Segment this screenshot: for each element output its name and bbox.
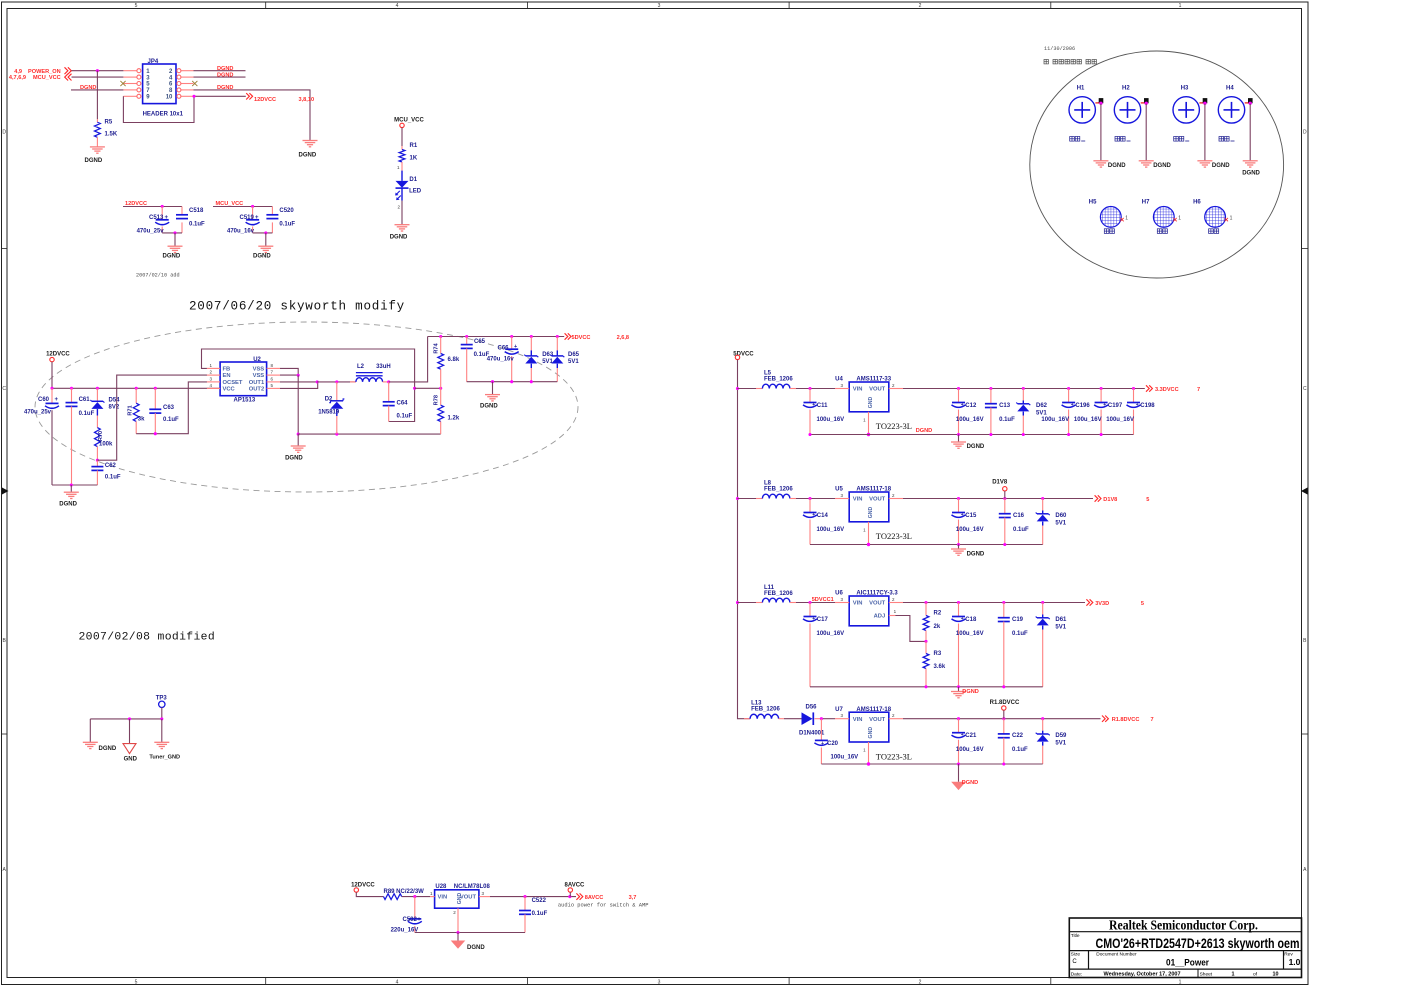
junction (413, 895, 416, 898)
svg-text:C520: C520 (279, 208, 294, 214)
svg-text:DGND: DGND (253, 254, 271, 260)
capacitor C60 (24, 388, 59, 485)
junction (957, 433, 960, 436)
junction (957, 717, 960, 720)
svg-text:JP4: JP4 (148, 59, 159, 65)
svg-text:H5: H5 (1089, 200, 1097, 206)
power port 8AVCC (565, 883, 586, 897)
svg-text:+: + (255, 215, 259, 221)
svg-text:3V3D: 3V3D (1095, 601, 1109, 607)
svg-text:DGND: DGND (916, 428, 932, 434)
zener diode D60 (1036, 499, 1067, 545)
svg-text:100u_16V: 100u_16V (817, 631, 845, 637)
svg-text:H4: H4 (1226, 86, 1234, 92)
svg-text:Wednesday, October 17, 2007: Wednesday, October 17, 2007 (1104, 971, 1181, 977)
junction (1203, 102, 1206, 105)
capacitor C62 (91, 460, 121, 485)
junction (989, 387, 992, 390)
svg-text:DGND: DGND (1242, 171, 1260, 177)
junction (556, 335, 559, 338)
svg-text:C21: C21 (965, 733, 977, 739)
svg-text:DGND: DGND (99, 746, 117, 752)
svg-text:+: + (961, 512, 964, 518)
junction (808, 387, 811, 390)
ic U6 AIC1117CY-3.3 (835, 591, 903, 626)
svg-text:GND: GND (868, 396, 874, 408)
svg-text:0.1uF: 0.1uF (1012, 747, 1028, 753)
svg-text:C66: C66 (498, 346, 510, 352)
junction (70, 483, 73, 486)
svg-text:+: + (812, 616, 815, 622)
svg-text:R3: R3 (934, 651, 942, 657)
svg-text:4: 4 (396, 3, 399, 9)
power port D1V8 (992, 480, 1008, 499)
resistor R3 (923, 641, 946, 686)
junction (924, 685, 927, 688)
svg-text:D2: D2 (325, 396, 333, 402)
wire cap bottoms (253, 232, 273, 234)
svg-text:R71: R71 (128, 405, 134, 415)
capacitor C198 (1106, 389, 1155, 435)
svg-text:H3: H3 (1181, 86, 1189, 92)
svg-text:C197: C197 (1108, 403, 1123, 409)
svg-text:H2: H2 (1122, 86, 1130, 92)
svg-text:100u_16V: 100u_16V (1041, 417, 1069, 423)
capacitor C20 (814, 719, 858, 764)
wire ground rail (298, 433, 441, 435)
ground DGND (951, 549, 985, 557)
wire output cap rail (467, 381, 558, 383)
svg-text:DGND: DGND (480, 404, 498, 410)
wire VOUT (903, 388, 1145, 390)
capacitor C66 (487, 337, 519, 382)
ic U2 AP1513 (207, 357, 280, 403)
svg-text:C18: C18 (965, 617, 977, 623)
wire VOUT (903, 498, 1093, 500)
svg-text:12DVCC: 12DVCC (351, 883, 375, 889)
svg-text:VOUT: VOUT (869, 497, 886, 503)
svg-text:R1.8DVCC: R1.8DVCC (1112, 717, 1140, 723)
svg-text:1.0: 1.0 (1289, 957, 1301, 967)
capacitor C197 (1074, 389, 1123, 435)
svg-text:1: 1 (1179, 979, 1182, 985)
svg-text:C519: C519 (240, 215, 255, 221)
svg-text:FEB_1206: FEB_1206 (764, 487, 793, 493)
wire (1204, 104, 1206, 161)
svg-text:DGND: DGND (59, 502, 77, 508)
svg-text:C198: C198 (1140, 403, 1155, 409)
junction (335, 380, 338, 383)
svg-text:+: + (165, 215, 169, 221)
svg-text:D: D (2, 130, 6, 136)
junction (867, 543, 870, 546)
junction (1002, 685, 1005, 688)
svg-text:470u_25v: 470u_25v (24, 409, 52, 415)
svg-text:3,7: 3,7 (629, 895, 637, 901)
wire GND pin (868, 742, 870, 764)
capacitor C17 (803, 603, 844, 687)
svg-text:470u_16v: 470u_16v (227, 229, 255, 235)
power port 5DVCC (733, 351, 754, 359)
svg-text:100u_16V: 100u_16V (1106, 417, 1134, 423)
svg-text:DGND: DGND (390, 235, 408, 241)
ground DGND (951, 780, 978, 790)
svg-text:470u_16v: 470u_16v (487, 357, 515, 363)
svg-text:C62: C62 (105, 463, 117, 469)
svg-text:0.1uF: 0.1uF (189, 222, 205, 228)
svg-text:4,9: 4,9 (14, 69, 22, 75)
ground DGND (951, 442, 985, 450)
svg-text:+: + (812, 512, 815, 518)
capacitor C14 (803, 499, 844, 545)
junction (1249, 102, 1252, 105)
svg-text:2007/02/08 modified: 2007/02/08 modified (79, 632, 216, 644)
junction (1002, 717, 1005, 720)
junction (1041, 717, 1044, 720)
svg-text:VCC: VCC (223, 387, 236, 393)
no-connect pin6 (192, 81, 197, 86)
svg-text:R5: R5 (105, 119, 113, 125)
inductor L2 33uH (350, 364, 391, 382)
junction (1002, 601, 1005, 604)
svg-text:L11: L11 (764, 585, 775, 591)
capacitor C520 (266, 207, 295, 233)
svg-text:C11: C11 (817, 403, 828, 409)
mounting hole H5 (1089, 200, 1129, 234)
zener diode D62 (1016, 389, 1047, 435)
ground DGND (285, 446, 306, 462)
svg-text:C19: C19 (1012, 617, 1024, 623)
resistor R1 (397, 143, 418, 171)
svg-text:U7: U7 (835, 707, 843, 713)
junction (924, 601, 927, 604)
junction (297, 374, 300, 377)
test point TP3 (156, 696, 168, 708)
capacitor C502 (391, 897, 422, 934)
svg-text:EN: EN (223, 373, 231, 379)
junction (1022, 387, 1025, 390)
svg-text:470u_25v: 470u_25v (137, 229, 165, 235)
svg-text:C22: C22 (1012, 733, 1024, 739)
svg-text:3: 3 (658, 3, 661, 9)
ground DGND (83, 742, 117, 752)
svg-text:C60: C60 (38, 397, 50, 403)
capacitor C518 (176, 207, 205, 233)
wire to ground (958, 545, 960, 550)
svg-text:0.1uF: 0.1uF (1013, 527, 1029, 533)
svg-text:D59: D59 (1055, 733, 1067, 739)
ic U28 NC/LM78L08 (430, 884, 490, 933)
svg-text:DGND: DGND (217, 66, 233, 72)
svg-text:11/30/2006: 11/30/2006 (1044, 46, 1075, 52)
svg-text:2k: 2k (934, 624, 941, 630)
svg-text:DGND: DGND (1108, 163, 1126, 169)
svg-text:AIC1117CY-3.3: AIC1117CY-3.3 (856, 591, 898, 597)
LED D1 (395, 171, 422, 210)
svg-text:220u_16V: 220u_16V (391, 928, 419, 934)
wire ground rail (415, 932, 525, 934)
wire bottom rail (52, 484, 97, 486)
svg-text:CMO'26+RTD2547D+2613 skyworth: CMO'26+RTD2547D+2613 skyworth oem (1096, 935, 1300, 951)
svg-text:U28: U28 (435, 884, 447, 890)
wire VOUT (903, 602, 1085, 604)
svg-text:OUT1: OUT1 (249, 380, 265, 386)
svg-text:H1: H1 (1077, 86, 1085, 92)
svg-text:GND: GND (124, 756, 138, 762)
junction (335, 433, 338, 436)
capacitor C522 (519, 897, 548, 933)
mounting hole H1 (1069, 86, 1103, 141)
junction (1041, 497, 1044, 500)
port R1.8DVCC (1102, 716, 1154, 724)
svg-text:HEADER 10x1: HEADER 10x1 (143, 112, 184, 118)
svg-text:+: + (1071, 402, 1074, 408)
wire DGND pin2 (194, 70, 246, 72)
svg-text:DGND: DGND (217, 85, 233, 91)
svg-text:33uH: 33uH (376, 364, 391, 370)
svg-text:6.8k: 6.8k (448, 357, 460, 363)
wire (738, 602, 757, 604)
capacitor C11 (803, 389, 844, 435)
junction (50, 387, 53, 390)
wire (738, 388, 757, 390)
junction (1099, 102, 1102, 105)
mounting hole H4 (1218, 86, 1252, 141)
wire (402, 896, 430, 898)
svg-text:D1V8: D1V8 (992, 480, 1008, 486)
junction (439, 387, 442, 390)
svg-text:C: C (1072, 959, 1077, 965)
svg-text:R74: R74 (434, 342, 440, 353)
resistor R78 (434, 388, 460, 434)
zener diode D63 (524, 337, 554, 382)
title block (1069, 917, 1301, 977)
svg-text:U5: U5 (835, 487, 843, 493)
diode D56 (784, 705, 825, 737)
svg-text:D: D (1303, 130, 1307, 136)
svg-text:C17: C17 (817, 617, 829, 623)
wire 12DVCC (123, 206, 182, 208)
junction (70, 387, 73, 390)
wire OCSET (136, 382, 207, 434)
svg-text:8V2: 8V2 (109, 405, 120, 411)
wire ground rail (810, 544, 1043, 546)
svg-text:2007/06/20 skyworth modify: 2007/06/20 skyworth modify (189, 300, 405, 314)
port 3V3D (1086, 599, 1144, 607)
power port 12DVCC (351, 883, 375, 893)
junction (957, 543, 960, 546)
svg-text:1N5819: 1N5819 (318, 409, 340, 415)
capacitor C65 (461, 337, 490, 382)
svg-text:5: 5 (135, 979, 138, 985)
junction (439, 335, 442, 338)
svg-text:3,8,10: 3,8,10 (299, 97, 315, 103)
junction (957, 601, 960, 604)
svg-text:H6: H6 (1193, 200, 1201, 206)
svg-text:Tuner_GND: Tuner_GND (149, 755, 180, 761)
port MCU_VCC (9, 74, 72, 82)
svg-text:0.1uF: 0.1uF (163, 417, 179, 423)
svg-text:VOUT: VOUT (869, 601, 886, 607)
svg-text:100k: 100k (99, 442, 113, 448)
port 8AVCC (576, 893, 636, 901)
svg-text:C: C (2, 386, 6, 392)
svg-text:100u_16V: 100u_16V (817, 417, 845, 423)
svg-text:0.1uF: 0.1uF (397, 414, 413, 420)
junction (128, 717, 131, 720)
capacitor C513 (137, 207, 170, 235)
junction (251, 205, 254, 208)
wire DGND pin7 (71, 89, 123, 91)
wire to GND (129, 719, 131, 744)
svg-text:FEB_1206: FEB_1206 (764, 591, 793, 597)
svg-text:2: 2 (919, 3, 922, 9)
resistor R71 (128, 388, 146, 433)
svg-text:FEB_1206: FEB_1206 (764, 377, 793, 383)
ground DGND (951, 689, 979, 698)
capacitor C519 (227, 207, 260, 235)
junction (808, 433, 811, 436)
svg-text:GND: GND (868, 506, 874, 518)
zener diode D65 (550, 337, 579, 382)
svg-text:GND: GND (868, 727, 874, 739)
svg-text:C518: C518 (189, 208, 204, 214)
svg-text:C15: C15 (965, 513, 977, 519)
ground GND (123, 744, 138, 763)
wire to ground (958, 687, 960, 692)
svg-text:POWER_ON: POWER_ON (28, 69, 61, 75)
svg-text:VIN: VIN (853, 717, 863, 723)
svg-text:01__Power: 01__Power (1166, 957, 1209, 967)
svg-text:5V1: 5V1 (1055, 624, 1066, 630)
ground DGND (253, 246, 273, 260)
wire 5DVCC rail (428, 336, 565, 338)
wire to ground (265, 233, 267, 246)
junction (456, 931, 459, 934)
svg-text:C522: C522 (532, 898, 547, 904)
wire to ground (70, 485, 72, 492)
ground DGND (85, 147, 105, 164)
wire DGND pin4 (194, 76, 246, 78)
junction (820, 717, 823, 720)
svg-text:2,6,8: 2,6,8 (617, 335, 629, 341)
wire to ground (297, 434, 299, 446)
svg-text:R89 NC/22/3W: R89 NC/22/3W (384, 889, 425, 895)
svg-text:DGND: DGND (163, 254, 181, 260)
svg-text:C196: C196 (1075, 403, 1090, 409)
svg-text:5V1: 5V1 (542, 359, 553, 365)
svg-text:C12: C12 (965, 403, 977, 409)
svg-text:D61: D61 (1055, 617, 1067, 623)
annotation chinese note (1044, 60, 1096, 64)
resistor R2 (923, 603, 942, 642)
power port MCU_VCC (394, 117, 424, 127)
svg-text:2007/02/10 add: 2007/02/10 add (136, 273, 180, 279)
dashed region ellipse (35, 322, 578, 492)
svg-text:5: 5 (1146, 497, 1149, 503)
junction (1002, 762, 1005, 765)
svg-text:GND: GND (457, 892, 463, 904)
svg-text:100u_16V: 100u_16V (831, 755, 859, 761)
wire (821, 718, 835, 720)
wire cap bottoms (162, 232, 182, 234)
svg-text:audio power for switch & AMP: audio power for switch & AMP (558, 903, 649, 909)
wire to ground (457, 933, 459, 941)
svg-text:7: 7 (1151, 717, 1154, 723)
wire MCU_VCC (72, 76, 124, 78)
inductor L13 FEB_1206 (744, 701, 784, 719)
svg-text:D1: D1 (409, 177, 417, 183)
svg-text:Size: Size (1071, 952, 1081, 958)
junction (1132, 387, 1135, 390)
port POWER_ON (14, 67, 71, 75)
port 5DVCC (565, 333, 629, 341)
svg-text:L2: L2 (357, 364, 365, 370)
svg-text:D65: D65 (568, 352, 580, 358)
resistor R5 (95, 71, 118, 147)
wire 12DVCC pin10 (194, 95, 246, 97)
mounting hole H3 (1173, 86, 1207, 141)
capacitor C19 (998, 603, 1028, 687)
junction (1067, 433, 1070, 436)
ground DGND (390, 225, 410, 241)
wire VOUT (490, 896, 576, 898)
svg-text:ADJ: ADJ (874, 614, 886, 620)
svg-text:R78: R78 (434, 395, 440, 405)
svg-text:Title: Title (1071, 933, 1080, 939)
wire 5DVCC trunk (738, 360, 751, 719)
svg-text:Sheet: Sheet (1200, 971, 1213, 977)
svg-text:VIN: VIN (853, 601, 863, 607)
svg-text:5V1: 5V1 (1036, 410, 1047, 416)
svg-text:VIN: VIN (853, 497, 863, 503)
junction (1022, 433, 1025, 436)
mounting hole H6 (1193, 200, 1233, 234)
wire (52, 362, 221, 389)
junction (387, 380, 390, 383)
svg-text:DGND: DGND (217, 73, 233, 79)
junction (161, 205, 164, 208)
wire (356, 892, 383, 896)
ground Tuner_GND (149, 742, 180, 760)
svg-text:+: + (961, 402, 964, 408)
ground DGND (59, 492, 79, 507)
svg-text:AMS1117-18: AMS1117-18 (856, 487, 891, 493)
svg-text:Date:: Date: (1071, 971, 1082, 977)
junction (465, 335, 468, 338)
junction (1100, 433, 1103, 436)
svg-text:10: 10 (166, 95, 173, 101)
svg-text:of: of (1253, 971, 1258, 977)
junction (173, 231, 176, 234)
junction (736, 497, 739, 500)
wire to ground (492, 382, 494, 395)
svg-text:2: 2 (919, 979, 922, 985)
wire to ground (958, 764, 960, 782)
svg-text:+: + (1136, 402, 1139, 408)
svg-text:DGND: DGND (967, 444, 985, 450)
svg-text:0.1uF: 0.1uF (279, 222, 295, 228)
svg-text:C20: C20 (827, 741, 839, 747)
svg-text:DGND: DGND (1212, 163, 1230, 169)
junction (135, 387, 138, 390)
mounting hole H7 (1142, 200, 1182, 234)
wire (1249, 104, 1251, 161)
svg-text:DGND: DGND (962, 780, 978, 786)
svg-text:+: + (514, 344, 517, 350)
wire to Tuner_GND (161, 719, 163, 742)
wire FB (202, 349, 415, 422)
